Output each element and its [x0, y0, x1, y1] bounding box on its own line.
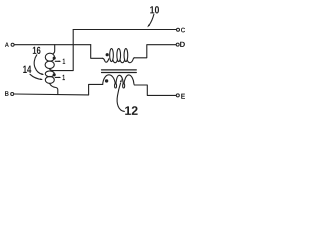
label 10 — [150, 6, 159, 13]
coil 14 loop 1 — [45, 71, 54, 77]
transformer bottom winding downloop 1 — [115, 83, 117, 88]
ratio arrow coil 16 — [55, 60, 60, 62]
transformer bottom winding lead to E — [134, 85, 176, 95]
wire B rise and feed to bottom winding — [89, 84, 103, 95]
transformer top winding exit dip — [127, 58, 134, 63]
wire B horizontal — [14, 93, 89, 96]
wire to C horizontal — [73, 29, 176, 31]
transformer top winding lead to D — [134, 45, 176, 58]
label C — [181, 28, 185, 33]
transformer top winding base dip 1 — [113, 60, 117, 63]
coil 16 loop 1 — [45, 53, 54, 61]
label D — [180, 42, 185, 47]
leader arrow from label 14 — [30, 74, 42, 79]
transformer bottom winding hump 1 — [103, 75, 116, 85]
transformer bottom winding hump 3 — [124, 75, 135, 85]
leader arrow from label 10 — [149, 14, 154, 25]
coil 16 exit to tap — [49, 69, 53, 71]
transformer bottom winding hump 2 — [116, 75, 123, 84]
arrowhead leader 12 — [120, 79, 122, 82]
transformer top winding entry dip — [103, 58, 109, 62]
transformer top winding loop 1 — [110, 49, 114, 62]
arrowhead ratio 16 — [59, 61, 62, 62]
transformer core lines — [102, 69, 137, 71]
transformer top winding loop 3 — [124, 49, 128, 62]
label 14 — [23, 66, 31, 73]
leader arrow from label 12 — [117, 83, 124, 112]
polarity dot coil 14 — [53, 73, 56, 76]
arrowhead leader 14 — [40, 78, 43, 80]
polarity dot top winding — [106, 53, 109, 56]
transformer bottom winding downloop 2 — [123, 83, 125, 88]
arrowhead leader 10 — [147, 24, 150, 27]
arrowhead leader 16 — [41, 73, 44, 75]
label B — [5, 91, 9, 96]
coil 14 loop 2 — [45, 76, 54, 83]
arrowhead ratio 14 — [59, 77, 62, 78]
node E terminal circle — [176, 94, 179, 97]
transformer top winding loop 2 — [117, 49, 121, 62]
node D terminal circle — [176, 43, 179, 46]
label 16 — [33, 47, 41, 54]
ratio arrow coil 14 — [55, 76, 60, 78]
label 1 (coil 16 ratio) — [63, 59, 65, 64]
coil 14 exit wire to B — [49, 83, 57, 94]
label 1 (coil 14 ratio) — [63, 75, 66, 80]
wire A horizontal — [14, 44, 90, 46]
label A — [5, 43, 9, 47]
leader arrow from label 16 — [34, 55, 42, 75]
coil 16 entry wire — [53, 45, 55, 54]
label E — [181, 94, 185, 99]
label 12 — [125, 106, 137, 115]
wire center-tap to C vertical — [51, 30, 73, 71]
polarity dot bottom winding — [105, 79, 108, 82]
coil 16 loop 2 — [45, 61, 54, 68]
wire A drop to transformer feed — [91, 45, 103, 59]
polarity dot coil 16 — [53, 57, 56, 60]
transformer top winding base dip 2 — [120, 60, 124, 63]
node B terminal circle — [11, 93, 14, 96]
node C terminal circle — [177, 28, 180, 31]
node A terminal circle — [11, 43, 14, 46]
